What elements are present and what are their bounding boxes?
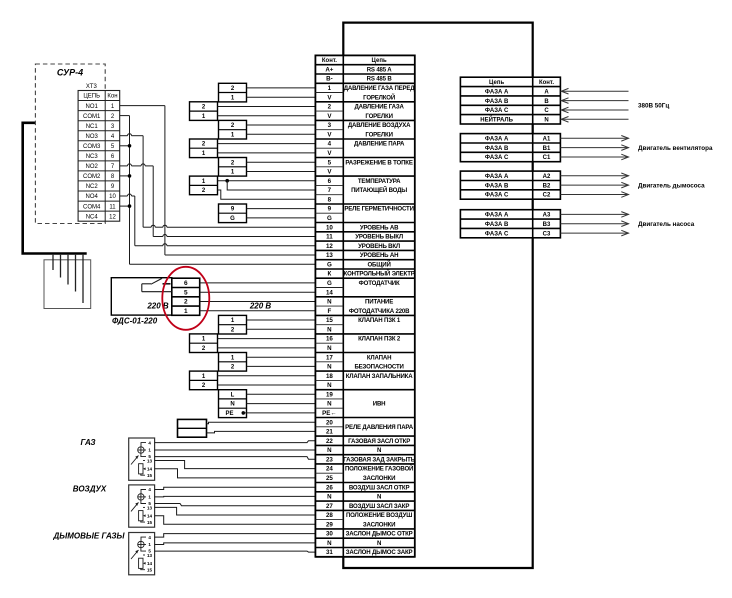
svg-text:220 В: 220 В (146, 301, 169, 310)
svg-text:380В 50Гц: 380В 50Гц (638, 102, 669, 109)
svg-text:RS 485 B: RS 485 B (367, 76, 393, 83)
svg-text:ФАЗА С: ФАЗА С (485, 108, 509, 114)
svg-text:Кон: Кон (107, 94, 117, 100)
svg-text:14: 14 (147, 514, 153, 519)
svg-text:17: 17 (326, 354, 333, 361)
svg-text:COM3: COM3 (83, 144, 101, 150)
svg-text:А2: А2 (543, 174, 551, 180)
svg-text:БЕЗОПАСНОСТИ: БЕЗОПАСНОСТИ (354, 364, 403, 371)
svg-text:28: 28 (326, 512, 333, 519)
svg-text:ЦЕПЬ: ЦЕПЬ (83, 94, 100, 100)
svg-text:ФАЗА В: ФАЗА В (485, 183, 509, 189)
svg-text:ПОЛОЖЕНИЕ ГАЗОВОЙ: ПОЛОЖЕНИЕ ГАЗОВОЙ (345, 465, 413, 473)
svg-text:9: 9 (328, 206, 332, 213)
svg-text:N: N (230, 402, 234, 408)
svg-text:ГАЗ: ГАЗ (80, 438, 95, 447)
svg-text:PE: PE (225, 411, 233, 417)
svg-text:УРОВЕНЬ АН: УРОВЕНЬ АН (360, 252, 398, 259)
svg-text:ПИТАЮЩЕЙ ВОДЫ: ПИТАЮЩЕЙ ВОДЫ (351, 186, 407, 194)
svg-text:ФОТОДАТЧИКА 220В: ФОТОДАТЧИКА 220В (349, 308, 410, 315)
svg-text:6: 6 (328, 178, 332, 185)
svg-text:ХТ3: ХТ3 (86, 84, 98, 90)
svg-text:Цепь: Цепь (489, 80, 504, 86)
svg-text:1: 1 (184, 308, 188, 315)
svg-text:NO3: NO3 (86, 134, 99, 140)
svg-text:КЛАПАН: КЛАПАН (367, 354, 391, 361)
svg-text:22: 22 (326, 438, 333, 445)
svg-text:С1: С1 (543, 155, 551, 161)
svg-text:12: 12 (109, 214, 116, 220)
svg-text:N: N (327, 299, 332, 306)
svg-text:1: 1 (328, 85, 332, 92)
svg-text:N: N (327, 326, 332, 333)
svg-text:N: N (327, 345, 332, 352)
svg-text:ФАЗА С: ФАЗА С (485, 155, 509, 161)
svg-text:B-: B- (326, 76, 333, 83)
svg-text:ДЫМОВЫЕ ГАЗЫ: ДЫМОВЫЕ ГАЗЫ (52, 532, 125, 541)
svg-text:PE←: PE← (322, 410, 336, 417)
svg-text:С: С (544, 108, 549, 114)
svg-text:СУР-4: СУР-4 (57, 68, 83, 78)
svg-text:NC2: NC2 (86, 184, 99, 190)
svg-text:15: 15 (147, 473, 153, 478)
svg-text:В1: В1 (543, 146, 551, 152)
svg-text:NC4: NC4 (86, 214, 99, 220)
svg-text:N: N (327, 401, 332, 408)
svg-text:ВОЗДУШ ЗАСЛ ЗАКР: ВОЗДУШ ЗАСЛ ЗАКР (349, 503, 409, 510)
svg-text:30: 30 (326, 531, 333, 538)
svg-text:24: 24 (326, 466, 333, 473)
svg-text:ФАЗА В: ФАЗА В (485, 146, 509, 152)
svg-text:NC3: NC3 (86, 154, 99, 160)
svg-text:15: 15 (147, 520, 153, 525)
svg-text:ГОРЕЛКОЙ: ГОРЕЛКОЙ (363, 93, 395, 101)
svg-text:14: 14 (147, 561, 153, 566)
svg-text:7: 7 (328, 187, 332, 194)
svg-text:220 В: 220 В (249, 301, 272, 310)
svg-text:К: К (328, 271, 332, 278)
svg-text:3: 3 (328, 122, 332, 129)
svg-text:ЗАСЛОНКИ: ЗАСЛОНКИ (363, 521, 395, 528)
svg-text:2: 2 (328, 104, 332, 111)
svg-text:14: 14 (147, 467, 153, 472)
svg-text:10: 10 (326, 224, 333, 231)
svg-text:N: N (327, 540, 332, 547)
svg-text:ФАЗА С: ФАЗА С (485, 231, 509, 237)
svg-text:N: N (377, 494, 381, 501)
svg-text:5: 5 (328, 159, 332, 166)
svg-text:L: L (231, 392, 235, 398)
svg-text:COM4: COM4 (83, 204, 101, 210)
svg-text:КОНТРОЛЬНЫЙ ЭЛЕКТР: КОНТРОЛЬНЫЙ ЭЛЕКТР (344, 270, 415, 278)
svg-text:8: 8 (328, 196, 332, 203)
svg-text:ПОЛОЖЕНИЕ ВОЗДУШ: ПОЛОЖЕНИЕ ВОЗДУШ (346, 512, 412, 519)
svg-text:COM1: COM1 (83, 114, 101, 120)
svg-text:31: 31 (326, 549, 333, 556)
svg-text:15: 15 (147, 568, 153, 573)
svg-text:23: 23 (326, 456, 333, 463)
svg-text:ДАВЛЕНИЕ ГАЗА ПЕРЕД: ДАВЛЕНИЕ ГАЗА ПЕРЕД (344, 85, 416, 92)
svg-text:5: 5 (184, 289, 188, 296)
svg-text:20: 20 (326, 419, 333, 426)
svg-text:ОБЩИЙ: ОБЩИЙ (367, 260, 390, 268)
svg-text:Двигатель насоса: Двигатель насоса (638, 221, 695, 228)
svg-text:УРОВЕНЬ ВКЛ: УРОВЕНЬ ВКЛ (358, 243, 400, 250)
svg-text:В2: В2 (543, 183, 551, 189)
svg-text:13: 13 (147, 553, 153, 558)
svg-text:13: 13 (147, 459, 153, 464)
svg-text:19: 19 (326, 391, 333, 398)
svg-text:Двигатель вентилятора: Двигатель вентилятора (638, 145, 713, 152)
svg-text:ЗАСЛОНКИ: ЗАСЛОНКИ (363, 475, 395, 482)
svg-text:РАЗРЕЖЕНИЕ В ТОПКЕ: РАЗРЕЖЕНИЕ В ТОПКЕ (345, 159, 412, 166)
svg-text:26: 26 (326, 484, 333, 491)
svg-text:ГОРЕЛКИ: ГОРЕЛКИ (365, 131, 392, 138)
svg-text:12: 12 (326, 243, 333, 250)
svg-text:А1: А1 (543, 137, 551, 143)
svg-text:RS 485 A: RS 485 A (367, 66, 393, 73)
svg-text:ФОТОДАТЧИК: ФОТОДАТЧИК (359, 280, 400, 287)
svg-text:A+: A+ (325, 66, 333, 73)
svg-text:ФАЗА С: ФАЗА С (485, 193, 509, 199)
svg-text:ФАЗА В: ФАЗА В (485, 99, 509, 105)
svg-text:ИВН: ИВН (373, 401, 386, 408)
svg-text:N: N (377, 447, 381, 454)
svg-text:ТЕМПЕРАТУРА: ТЕМПЕРАТУРА (358, 178, 401, 185)
svg-text:КЛАПАН ЗАПАЛЬНИКА: КЛАПАН ЗАПАЛЬНИКА (346, 373, 413, 380)
svg-text:25: 25 (326, 475, 333, 482)
svg-text:NC1: NC1 (86, 124, 99, 130)
svg-text:В3: В3 (543, 222, 551, 228)
svg-text:14: 14 (326, 289, 333, 296)
svg-text:G: G (327, 261, 332, 268)
svg-text:NO4: NO4 (86, 194, 99, 200)
svg-text:ГОРЕЛКИ: ГОРЕЛКИ (365, 113, 392, 120)
svg-text:УРОВЕНЬ АВ: УРОВЕНЬ АВ (360, 224, 399, 231)
svg-text:УРОВЕНЬ ВЫКЛ: УРОВЕНЬ ВЫКЛ (355, 234, 403, 241)
svg-text:15: 15 (326, 317, 333, 324)
svg-text:N: N (377, 540, 381, 547)
svg-text:ПИТАНИЕ: ПИТАНИЕ (365, 299, 393, 306)
svg-text:ФАЗА А: ФАЗА А (485, 213, 509, 219)
svg-text:21: 21 (326, 429, 333, 436)
svg-text:А3: А3 (543, 213, 551, 219)
svg-text:G: G (327, 280, 332, 287)
svg-text:НЕЙТРАЛЬ: НЕЙТРАЛЬ (480, 116, 513, 124)
svg-text:13: 13 (326, 252, 333, 259)
svg-text:N: N (327, 494, 332, 501)
svg-text:ГАЗОВАЯ ЗАД ЗАКРЫТЬ: ГАЗОВАЯ ЗАД ЗАКРЫТЬ (343, 456, 415, 463)
svg-text:ГАЗОВАЯ ЗАСЛ ОТКР: ГАЗОВАЯ ЗАСЛ ОТКР (348, 438, 410, 445)
svg-text:27: 27 (326, 503, 333, 510)
svg-text:Конт.: Конт. (322, 58, 337, 64)
svg-text:ВОЗДУХ: ВОЗДУХ (73, 485, 107, 494)
svg-text:ФАЗА В: ФАЗА В (485, 222, 509, 228)
svg-text:13: 13 (147, 506, 153, 511)
svg-text:G: G (327, 215, 332, 222)
svg-text:ФАЗА А: ФАЗА А (485, 137, 509, 143)
svg-text:ДАВЛЕНИЕ ПАРА: ДАВЛЕНИЕ ПАРА (354, 141, 405, 148)
svg-text:Конт.: Конт. (539, 80, 554, 86)
svg-text:4: 4 (328, 141, 332, 148)
svg-text:11: 11 (326, 234, 333, 241)
svg-text:А: А (544, 89, 549, 95)
svg-text:ФДС-01-220: ФДС-01-220 (112, 317, 158, 326)
svg-text:ЗАСЛОН ДЫМОС ОТКР: ЗАСЛОН ДЫМОС ОТКР (346, 531, 413, 538)
svg-text:N: N (327, 382, 332, 389)
svg-text:КЛАПАН ПЗК 2: КЛАПАН ПЗК 2 (358, 336, 401, 343)
svg-text:ЗАСЛОН ДЫМОС ЗАКР: ЗАСЛОН ДЫМОС ЗАКР (346, 549, 413, 556)
svg-text:16: 16 (326, 336, 333, 343)
svg-text:NO1: NO1 (86, 104, 99, 110)
svg-text:С3: С3 (543, 231, 551, 237)
svg-text:COM2: COM2 (83, 174, 101, 180)
svg-text:N: N (544, 118, 548, 124)
svg-text:РЕЛЕ ДАВЛЕНИЯ ПАРА: РЕЛЕ ДАВЛЕНИЯ ПАРА (345, 424, 414, 431)
svg-text:G: G (230, 216, 235, 222)
svg-text:18: 18 (326, 373, 333, 380)
svg-text:ДАВЛЕНИЕ ВОЗДУХА: ДАВЛЕНИЕ ВОЗДУХА (348, 122, 411, 129)
svg-text:КЛАПАН ПЗК 1: КЛАПАН ПЗК 1 (358, 317, 401, 324)
svg-text:N: N (327, 447, 332, 454)
svg-text:ДАВЛЕНИЕ ГАЗА: ДАВЛЕНИЕ ГАЗА (354, 104, 404, 111)
svg-text:11: 11 (109, 204, 116, 210)
svg-text:ФАЗА А: ФАЗА А (485, 174, 509, 180)
svg-text:N: N (327, 364, 332, 371)
svg-text:ВОЗДУШ ЗАСЛ ОТКР: ВОЗДУШ ЗАСЛ ОТКР (349, 484, 410, 491)
svg-text:Цепь: Цепь (372, 58, 387, 64)
svg-text:В: В (544, 99, 549, 105)
svg-text:Двигатель дымососа: Двигатель дымососа (638, 182, 705, 189)
svg-text:РЕЛЕ ГЕРМЕТИЧНОСТИ: РЕЛЕ ГЕРМЕТИЧНОСТИ (344, 206, 413, 213)
svg-text:6: 6 (184, 280, 188, 287)
svg-text:С2: С2 (543, 193, 551, 199)
svg-text:ФАЗА А: ФАЗА А (485, 89, 509, 95)
svg-text:NO2: NO2 (86, 164, 99, 170)
svg-text:F: F (328, 308, 332, 315)
svg-text:29: 29 (326, 521, 333, 528)
svg-text:10: 10 (109, 194, 116, 200)
svg-text:2: 2 (184, 299, 188, 306)
